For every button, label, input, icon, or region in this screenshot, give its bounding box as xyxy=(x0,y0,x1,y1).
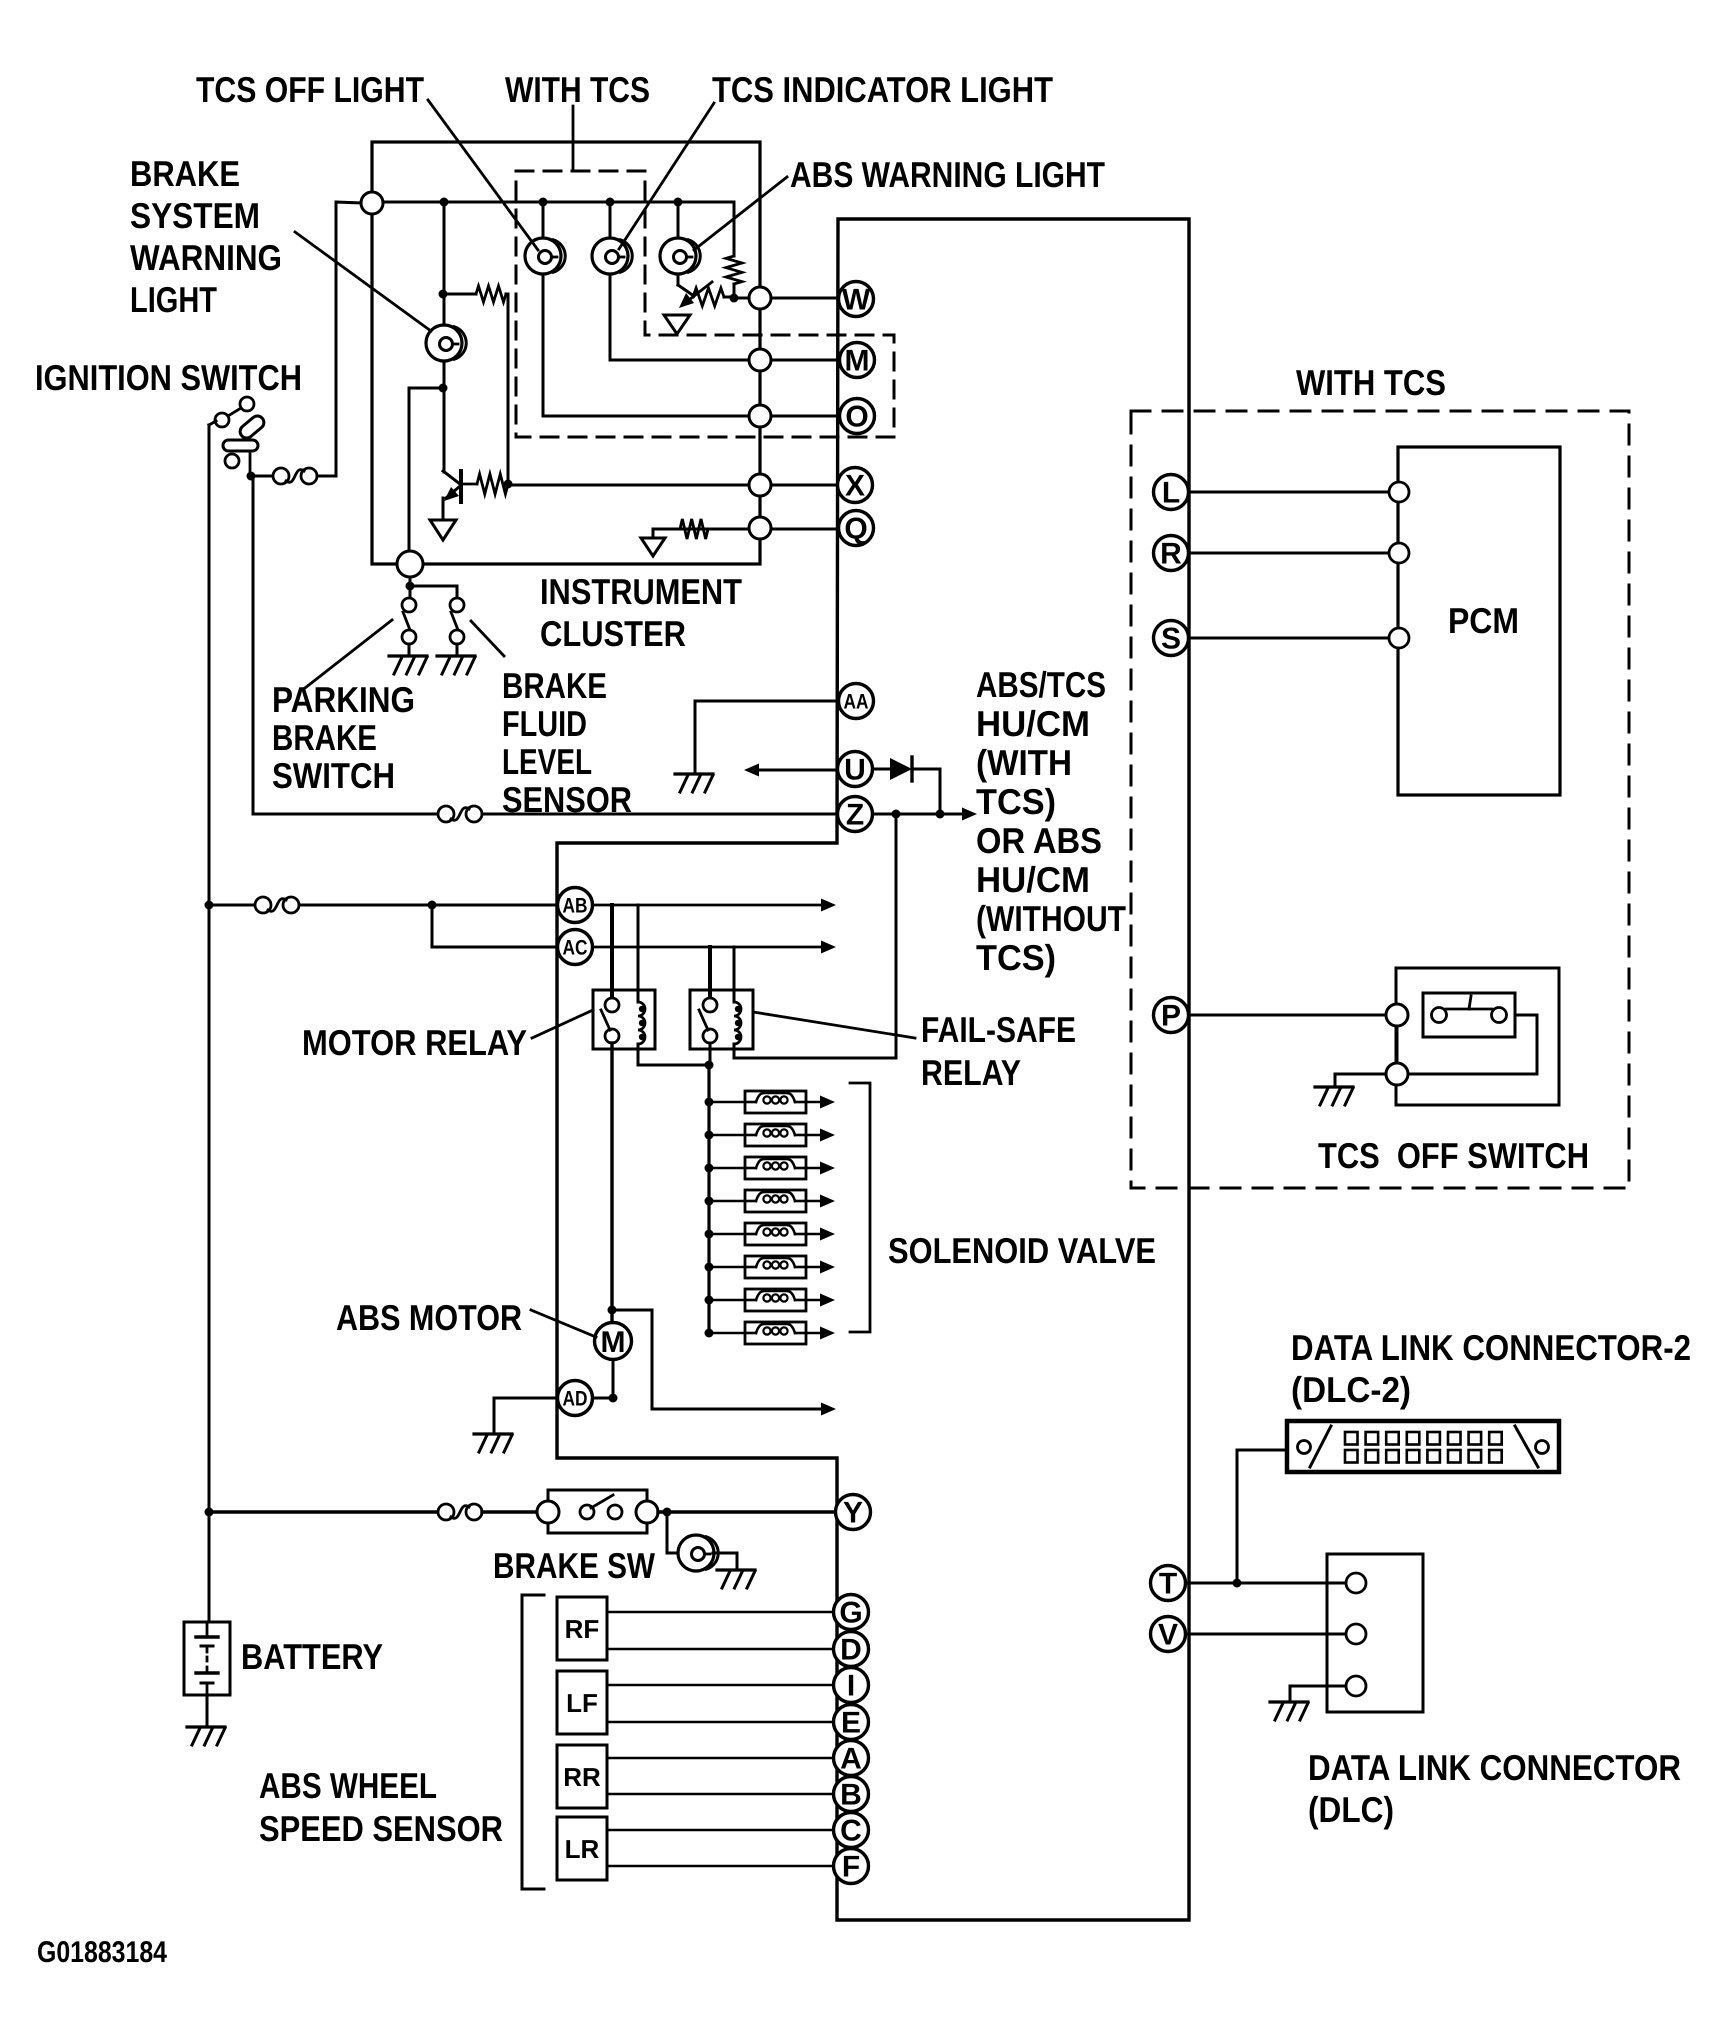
svg-text:TCS OFF SWITCH: TCS OFF SWITCH xyxy=(1318,1135,1589,1176)
svg-text:WITH TCS: WITH TCS xyxy=(505,69,650,110)
svg-text:Z: Z xyxy=(846,799,864,832)
svg-text:B: B xyxy=(840,1779,862,1812)
svg-text:SENSOR: SENSOR xyxy=(502,779,632,820)
svg-text:OR ABS: OR ABS xyxy=(976,820,1102,861)
svg-text:INSTRUMENT: INSTRUMENT xyxy=(540,571,742,612)
svg-text:CLUSTER: CLUSTER xyxy=(540,613,686,654)
svg-text:G: G xyxy=(839,1597,862,1630)
svg-text:LR: LR xyxy=(565,1834,600,1864)
svg-text:HU/CM: HU/CM xyxy=(976,703,1090,744)
svg-text:WITH TCS: WITH TCS xyxy=(1296,362,1446,403)
svg-text:BRAKE: BRAKE xyxy=(272,717,377,758)
svg-text:I: I xyxy=(847,1670,855,1703)
svg-text:SOLENOID VALVE: SOLENOID VALVE xyxy=(888,1230,1156,1271)
svg-text:DATA LINK CONNECTOR: DATA LINK CONNECTOR xyxy=(1308,1747,1681,1788)
svg-text:IGNITION SWITCH: IGNITION SWITCH xyxy=(35,357,302,398)
svg-text:PARKING: PARKING xyxy=(272,679,415,720)
svg-text:(DLC): (DLC) xyxy=(1308,1789,1394,1830)
svg-text:AC: AC xyxy=(563,937,588,960)
svg-text:BRAKE: BRAKE xyxy=(502,665,607,706)
svg-text:V: V xyxy=(1158,1619,1178,1652)
svg-text:C: C xyxy=(840,1815,862,1848)
svg-text:RELAY: RELAY xyxy=(921,1052,1021,1093)
svg-text:T: T xyxy=(1159,1568,1177,1601)
svg-text:G01883184: G01883184 xyxy=(37,1936,167,1969)
svg-text:TCS): TCS) xyxy=(976,781,1056,822)
svg-text:ABS/TCS: ABS/TCS xyxy=(976,664,1106,705)
svg-text:M: M xyxy=(845,345,870,378)
svg-text:R: R xyxy=(1160,538,1182,571)
svg-text:L: L xyxy=(1162,477,1180,510)
svg-text:P: P xyxy=(1161,1000,1181,1033)
svg-text:D: D xyxy=(840,1634,862,1667)
svg-text:SWITCH: SWITCH xyxy=(272,755,395,796)
svg-text:U: U xyxy=(844,754,866,787)
svg-text:W: W xyxy=(842,284,871,317)
svg-text:TCS): TCS) xyxy=(976,937,1056,978)
svg-text:LEVEL: LEVEL xyxy=(502,741,592,782)
svg-text:O: O xyxy=(845,401,868,434)
svg-text:(WITH: (WITH xyxy=(976,742,1072,783)
svg-text:TCS INDICATOR LIGHT: TCS INDICATOR LIGHT xyxy=(712,69,1053,110)
svg-text:DATA LINK CONNECTOR-2: DATA LINK CONNECTOR-2 xyxy=(1291,1327,1691,1368)
svg-text:SYSTEM: SYSTEM xyxy=(130,195,260,236)
svg-text:FAIL-SAFE: FAIL-SAFE xyxy=(921,1009,1076,1050)
svg-text:ABS WARNING LIGHT: ABS WARNING LIGHT xyxy=(790,154,1105,195)
svg-text:BRAKE SW: BRAKE SW xyxy=(493,1545,655,1586)
svg-text:BATTERY: BATTERY xyxy=(241,1636,383,1677)
svg-text:F: F xyxy=(842,1851,860,1884)
svg-text:RF: RF xyxy=(565,1614,600,1644)
svg-text:MOTOR RELAY: MOTOR RELAY xyxy=(302,1022,527,1063)
svg-text:ABS WHEEL: ABS WHEEL xyxy=(259,1765,437,1806)
svg-text:AA: AA xyxy=(844,691,869,714)
svg-text:LIGHT: LIGHT xyxy=(130,279,217,320)
svg-text:E: E xyxy=(841,1707,861,1740)
svg-text:A: A xyxy=(840,1743,862,1776)
svg-text:AB: AB xyxy=(563,895,588,918)
svg-text:S: S xyxy=(1161,623,1181,656)
svg-text:(DLC-2): (DLC-2) xyxy=(1291,1369,1411,1410)
svg-text:M: M xyxy=(601,1326,626,1359)
svg-text:Y: Y xyxy=(843,1497,863,1530)
svg-text:BRAKE: BRAKE xyxy=(130,153,240,194)
svg-text:SPEED SENSOR: SPEED SENSOR xyxy=(259,1808,503,1849)
svg-text:LF: LF xyxy=(566,1688,598,1718)
svg-text:PCM: PCM xyxy=(1448,600,1519,641)
svg-text:AD: AD xyxy=(563,1388,588,1411)
svg-text:(WITHOUT: (WITHOUT xyxy=(976,898,1126,939)
svg-text:FLUID: FLUID xyxy=(502,703,587,744)
svg-text:TCS OFF LIGHT: TCS OFF LIGHT xyxy=(196,69,424,110)
svg-text:ABS MOTOR: ABS MOTOR xyxy=(336,1297,522,1338)
svg-text:X: X xyxy=(845,470,865,503)
svg-text:Q: Q xyxy=(844,513,867,546)
svg-text:RR: RR xyxy=(563,1762,601,1792)
svg-text:WARNING: WARNING xyxy=(130,237,282,278)
svg-text:HU/CM: HU/CM xyxy=(976,859,1090,900)
